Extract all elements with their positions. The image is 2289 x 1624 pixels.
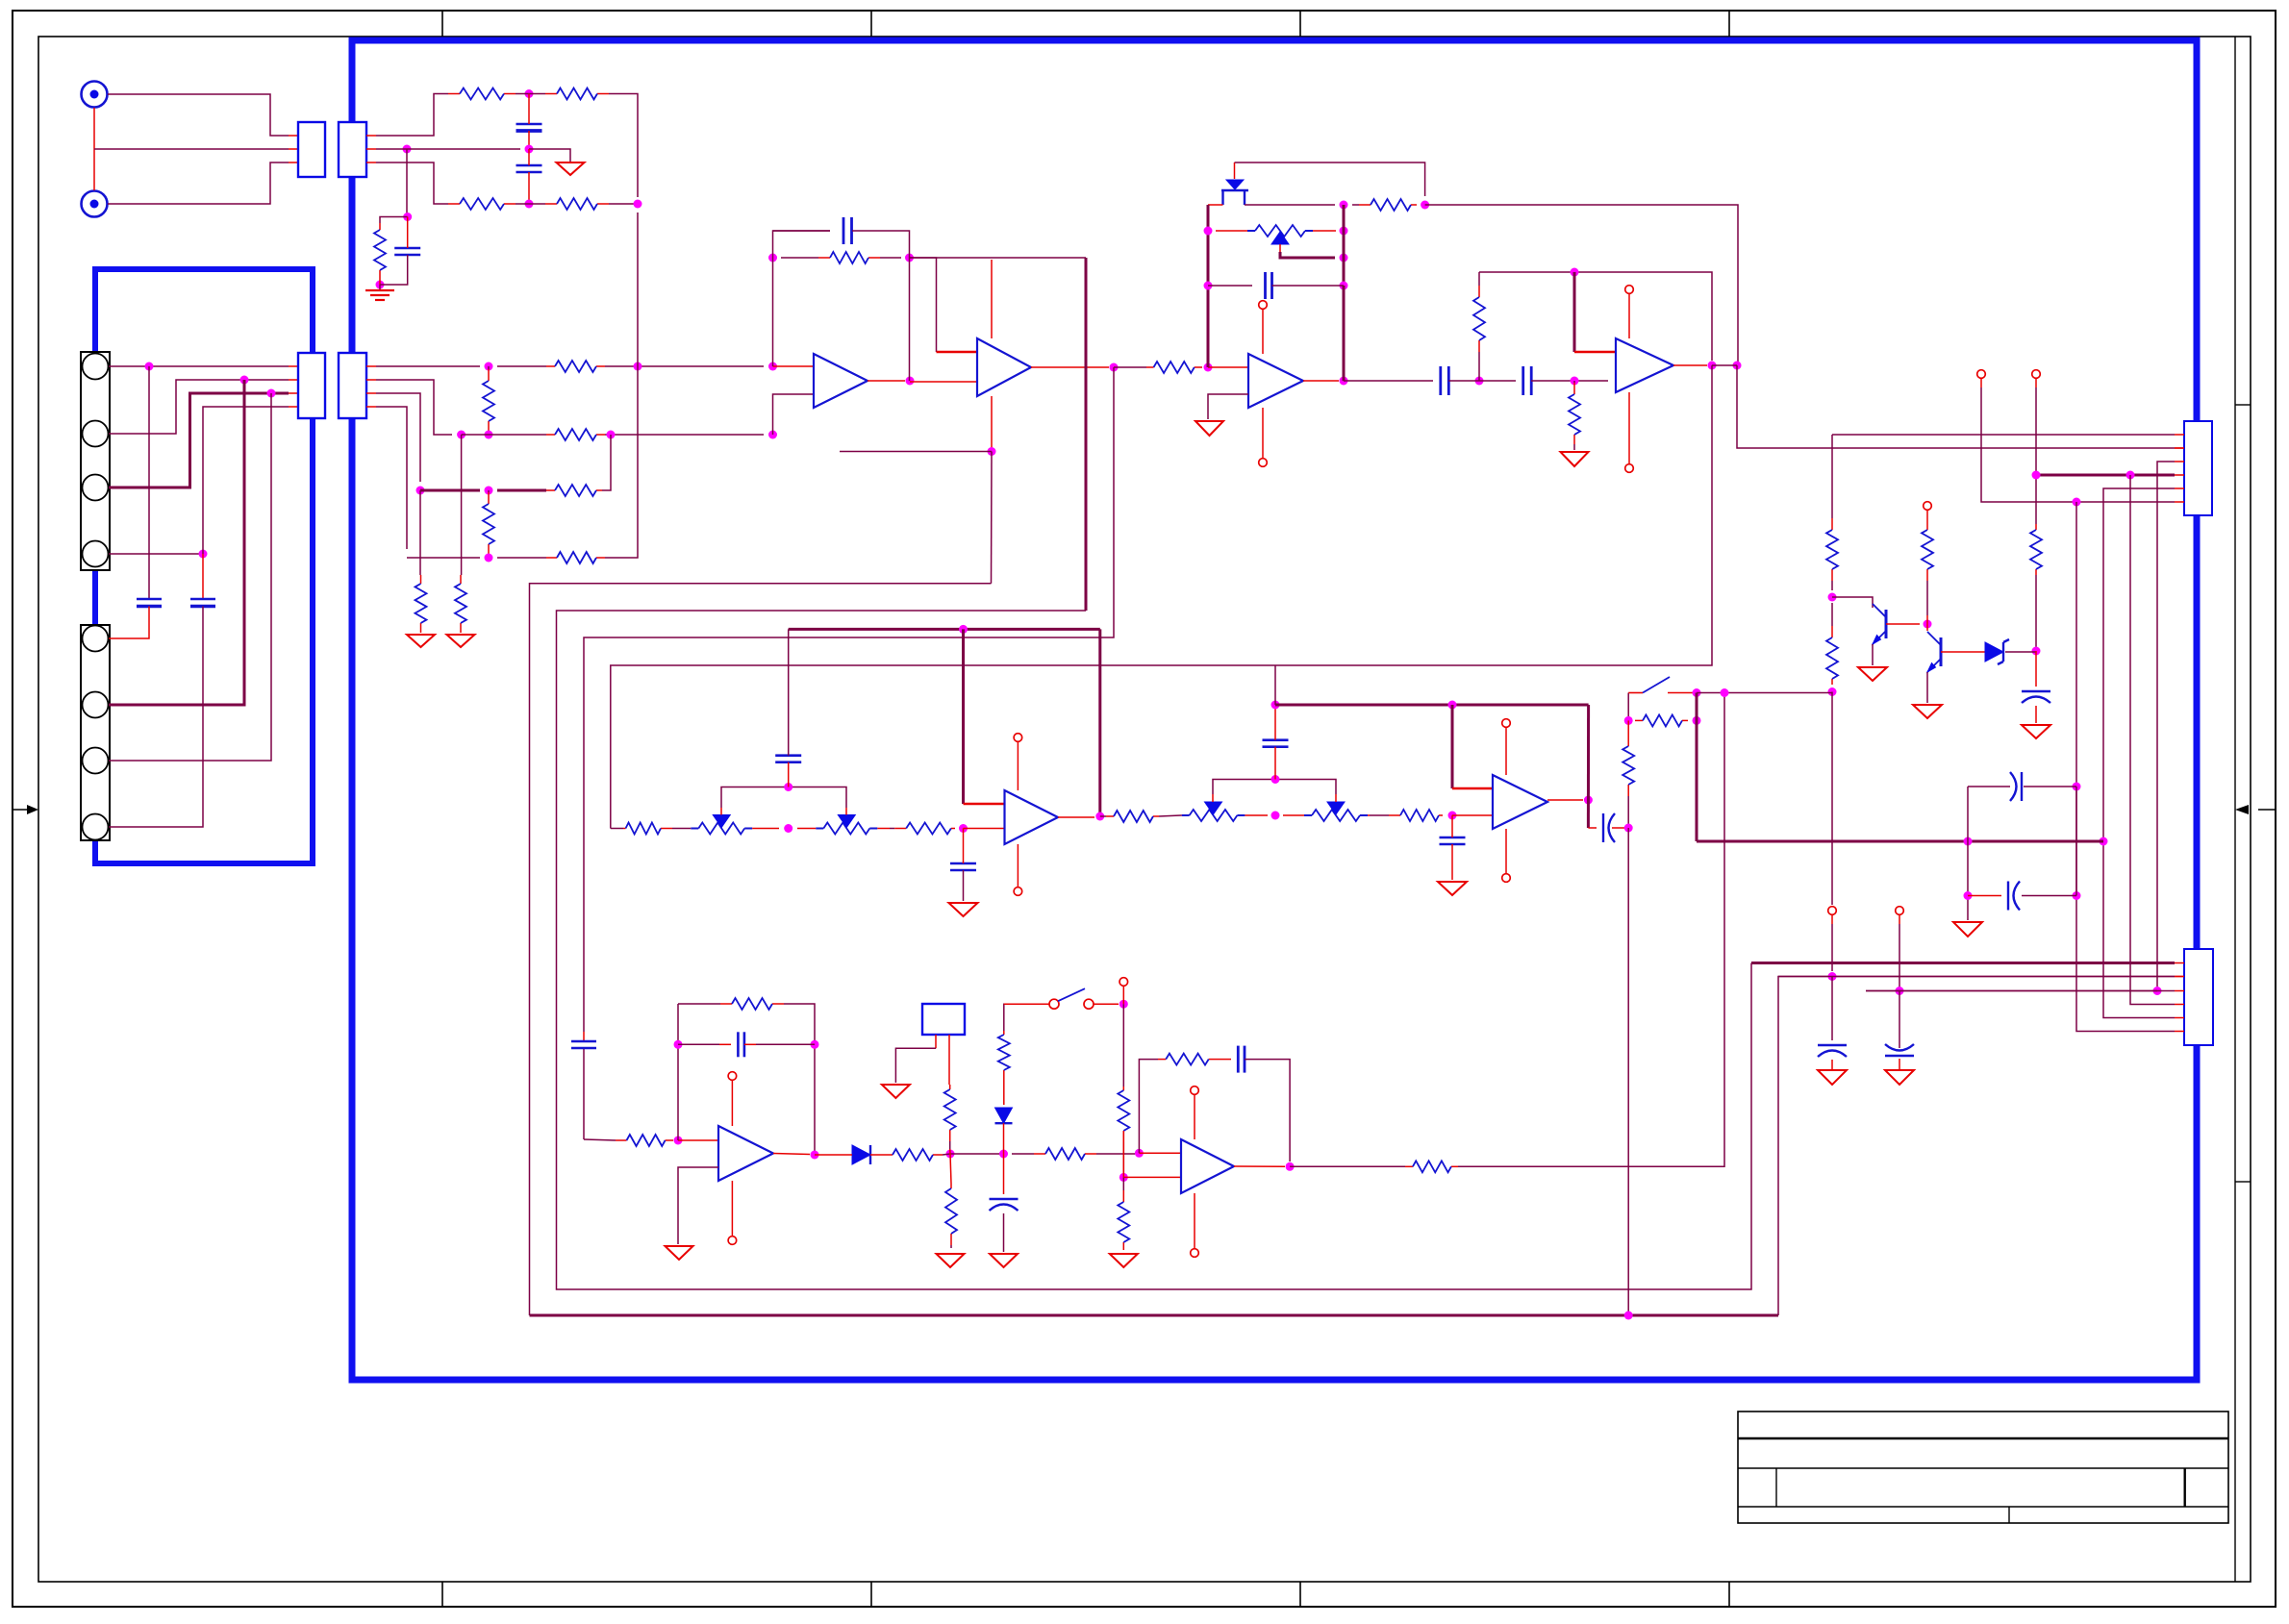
wire cap1086 a2 (719, 1043, 731, 1045)
title block vline 3 (2008, 1507, 2010, 1523)
capacitor C7 (1266, 272, 1272, 299)
junction n17 (803.5,452) (768, 431, 777, 439)
junction n8 (254,395) (240, 376, 249, 385)
connector J3 circle 7 (83, 748, 109, 774)
wire D4 to n72 (1003, 1123, 1005, 1154)
wire n72 down (1003, 1154, 1005, 1194)
wire fb right (808, 1004, 815, 1155)
connector J3 circle 1 (83, 354, 109, 380)
capacitor C4 (137, 599, 162, 607)
wire V1 down (1981, 387, 1982, 502)
wire n62 down (1451, 815, 1453, 837)
wire P2 pin2 row (376, 148, 520, 150)
title block vline 1 (1775, 1468, 1777, 1507)
junction n45 (2004,649) (1924, 620, 1932, 629)
pin circle U6 V+ (728, 1072, 737, 1081)
wire U6 plus (678, 1167, 718, 1244)
wire n48 down (1627, 720, 1629, 740)
ground G7 (1913, 705, 1942, 718)
junction n12 (663,381) (634, 362, 642, 371)
wire C5 down to pin8 (109, 607, 203, 828)
wire Q2 emitter down (1926, 672, 1928, 703)
wire row733 (1275, 704, 1589, 707)
resistor R35 (998, 1031, 1010, 1076)
resistor R2 (542, 88, 613, 100)
trimmer RP3 wiper (789, 787, 846, 815)
junction n24 (1256,382) (1204, 363, 1213, 372)
pin stub P4 pin1 (366, 365, 376, 367)
resistor R34 (945, 1184, 957, 1248)
wire U7 V+ (1194, 1095, 1195, 1139)
capacitor C8 (1441, 366, 1449, 395)
wire C15 down (788, 762, 790, 787)
border tick bottom 1 (441, 1582, 443, 1607)
connector J3 circle 2 (83, 421, 109, 447)
wire R21 to n45 (1926, 615, 1928, 624)
wire n71-n72 (950, 1153, 1004, 1155)
pin stub J5 pin3 (2175, 990, 2184, 992)
wire row1368 riser (1778, 977, 2175, 1316)
wire x1693 down (1627, 828, 1629, 1315)
wire row1368 thick (530, 1314, 1779, 1317)
junction n34 (1637,396) (1571, 377, 1579, 386)
capacitor C3 (394, 248, 420, 255)
wire U5a V+ (1017, 742, 1019, 790)
wire R31 to n71 (943, 1154, 950, 1155)
junction n54 (819.7,861.5) (784, 824, 792, 833)
relay K1 box (922, 1004, 965, 1035)
junction n14 (479.6,452) (457, 431, 465, 439)
wire n52-row (1866, 990, 1899, 992)
wire V1 stub (1980, 378, 1982, 387)
wire cap row861 a (1588, 827, 1597, 829)
junction n15 (508,452) (485, 431, 493, 439)
pin circle U5b V- (1502, 874, 1511, 883)
ground G2 (407, 635, 435, 647)
connector J3 circle 3 (83, 475, 109, 501)
wire row452 c (605, 434, 764, 436)
diode D3 (852, 1145, 870, 1164)
pin stub P1 pin2 (289, 148, 298, 150)
capacitor C19 (1440, 837, 1466, 844)
resistor R37 (1118, 1177, 1129, 1250)
wire x1397 seg a (1343, 205, 1346, 286)
wire V4 stub (1831, 914, 1833, 924)
pin circle U6 V- (728, 1237, 737, 1245)
junction n67 (705,1186) (674, 1137, 683, 1145)
pin circle U7 V- (1191, 1249, 1199, 1258)
junction n52 (1975,1030.5) (1896, 987, 1904, 995)
wire row213 a (1208, 204, 1223, 206)
wire row452 b (462, 434, 546, 436)
pin circle U3 V- (1259, 459, 1268, 467)
wire J3 pin6 jog (109, 380, 244, 705)
wire U5b out (1547, 799, 1583, 801)
wire row580 (407, 557, 480, 559)
ground G1 (557, 162, 585, 175)
wire U4 plus red (1574, 351, 1616, 354)
junction n28 (1397,240) (1340, 227, 1348, 236)
junction n1 top (525, 89, 534, 98)
wire row381 b (497, 365, 546, 367)
wire P2 pin3 jog (376, 162, 448, 204)
ground G15 (882, 1085, 910, 1098)
capacitor C1 (0, 0, 1, 1)
wire row635 net (557, 611, 1752, 1289)
resistor R24 (1622, 740, 1634, 828)
trimmer RP3 (797, 815, 890, 835)
title block hline 3 (1738, 1506, 2228, 1508)
wire pin6 row (1982, 501, 2175, 503)
junction n42 (2117,494) (2032, 471, 2041, 480)
wire cap1086 a (678, 1043, 719, 1045)
connector J3 circle 8 (83, 814, 109, 840)
wire J3 pin4 jog (109, 553, 203, 555)
wire row580 c (605, 212, 638, 558)
junction n65 (1651.4,832) (1584, 796, 1593, 805)
junction n73 (1184.4,1199.3) (1135, 1149, 1144, 1158)
pin stub P3 pin2 (289, 379, 298, 381)
junction n72 (1043.5,1200) (999, 1150, 1008, 1159)
wire n7 down to C4 (148, 366, 150, 599)
capacitor C15 (775, 756, 801, 762)
junction n18 (437,510) (416, 487, 425, 495)
ground G4 (1195, 421, 1223, 436)
junction n36 (1780,380) (1708, 362, 1717, 370)
junction n77 (1793,720.5) (1721, 688, 1729, 697)
wire V4 down (1831, 924, 1833, 971)
junction n47 (1764,720.5) (1693, 688, 1701, 697)
wire U5a minus red (964, 803, 1005, 806)
junction n4 (663,212) (634, 200, 642, 209)
capacitor C1 plates (516, 124, 542, 131)
junction n64 (1510,733) (1448, 701, 1457, 710)
wire K1 left pin (935, 1035, 937, 1048)
title block frame (1738, 1412, 2228, 1523)
resistor R22 (1826, 603, 1838, 685)
pin circle net V2 (2032, 370, 2041, 379)
ground G6 (1858, 667, 1887, 681)
capacitor C21 (738, 1032, 744, 1057)
junction n62 (1510,848) (1448, 812, 1457, 820)
sheet symbol input (small blue rect) (95, 269, 313, 863)
wire R9 to n16 (602, 435, 611, 490)
junction n74 (1168.3,1044.2) (1119, 1000, 1128, 1009)
wire n1 to C1 (528, 94, 530, 125)
resistor R38 (1158, 1054, 1217, 1065)
resistor R11 (546, 552, 605, 563)
capacitor C6 (843, 217, 852, 244)
wire row452 jog (376, 380, 452, 435)
wire n23 net to row606 (991, 452, 994, 584)
capacitor C12 (polarized) (1885, 1044, 1914, 1056)
op-amp U7 (1181, 1139, 1234, 1193)
resistor R31 (885, 1149, 943, 1161)
capacitor C17 (1263, 740, 1289, 747)
junction n30 (1256,297) (1204, 282, 1213, 290)
wire C17 down (1274, 747, 1276, 780)
wire SW2 right (1094, 1003, 1119, 1005)
resistor R9 (546, 485, 602, 496)
resistor R17 (1473, 272, 1485, 381)
connector P1 (left plug) (298, 122, 325, 177)
wire C10 down (2035, 706, 2037, 723)
junction n31 (1397,297) (1340, 282, 1348, 290)
resistor R14 (781, 252, 901, 263)
wire c9 right (1531, 380, 1608, 382)
wire n10 up to pin4 (203, 407, 289, 554)
junction n21 (946,396) (906, 377, 915, 386)
pin circle U4 V+ (1625, 286, 1634, 294)
wire cap1086 b2 (756, 1043, 815, 1045)
junction n25 (1397,213) (1340, 201, 1348, 210)
junction n55 (819.7,818.5) (784, 783, 792, 791)
junction n10 (211,576) (199, 550, 208, 559)
resistor R6 (546, 361, 605, 372)
resistor R28 (1370, 810, 1443, 821)
wire n75 to U7 plus (1123, 1176, 1181, 1178)
op-amp U5a (1005, 790, 1059, 844)
pin circle U4 V- (1625, 464, 1634, 473)
capacitor C13 (polarized) (2010, 772, 2022, 801)
wire U2 Vplus (991, 260, 993, 338)
pin stub P4 pin2 (366, 379, 376, 381)
wire n2b right (529, 149, 570, 162)
resistor R5 (374, 223, 386, 279)
wire n73 up (1139, 1060, 1158, 1154)
pin stub J4 pin6b (2175, 501, 2184, 503)
wire n1 stub (516, 93, 542, 95)
wire row931 b (2022, 895, 2076, 897)
wire n6 to earth (379, 285, 381, 289)
resistor R8 (546, 429, 605, 440)
wire P2 pin1 up (376, 94, 448, 137)
junction n53 (2046,931.5) (1964, 891, 1973, 900)
wire R18 gnd (1573, 444, 1575, 450)
wire c8-c9 (1448, 380, 1516, 382)
wire R36 to n75 (1122, 1131, 1124, 1177)
wire U3 V- down (1262, 408, 1264, 458)
pin circle V3 (1924, 502, 1932, 511)
pin stub P1 pin1 (289, 135, 298, 137)
wire U5a V- (1017, 844, 1019, 887)
connector P4 (right socket lower) (339, 353, 366, 418)
wire A up (773, 231, 831, 258)
capacitor C11 (polarized) (1818, 1045, 1847, 1057)
junction n20 (508,580) (485, 554, 493, 562)
resistor R39 (1405, 1161, 1458, 1172)
wire n44 to Q1 (1832, 597, 1873, 608)
junction n51 (1905,1015.5) (1828, 972, 1837, 981)
resistor R15 (1146, 362, 1202, 373)
connector J3 strip upper (81, 352, 110, 570)
wire row452 to J4 (1832, 434, 2175, 436)
capacitor C18 (polarized) (1603, 813, 1615, 842)
capacitor C22 (polarized) (990, 1199, 1019, 1211)
wire row654 (789, 628, 1100, 631)
resistor R18 (1569, 381, 1580, 444)
wire fb1044 left (678, 1003, 687, 1005)
pin stub J4 pin1b (2175, 434, 2184, 436)
wire U2 minus red (937, 351, 978, 354)
wire row931 a (1968, 895, 2001, 897)
earth ground E1 (365, 290, 394, 300)
junction n11 (508,381) (485, 362, 493, 371)
resistor R12 (415, 575, 427, 633)
connector J4 (right top) (2184, 421, 2212, 515)
wire n18 down (419, 490, 421, 575)
pin stub J4 pin5b (2175, 487, 2184, 489)
capacitor C16 (950, 863, 976, 870)
pin circle U5a V+ (1014, 734, 1022, 742)
wire n36 down row692 (611, 365, 1712, 829)
junction nB (945.5,268) (905, 254, 914, 262)
wire V3 down (1926, 510, 1928, 524)
pin circle U3 V+ (1259, 301, 1268, 310)
wire U4 V+ (1628, 294, 1630, 338)
wire R2 to x663 (613, 94, 638, 198)
ground G13 (1438, 882, 1467, 895)
wire U6 out (773, 1154, 810, 1155)
wire J3 pin7 jog (109, 393, 271, 761)
resistor R20 (1826, 435, 1838, 590)
ground G16 (937, 1254, 965, 1267)
wire C3 to n6 (380, 255, 408, 285)
op-amp U4 (1616, 338, 1673, 392)
border tick top 2 (870, 11, 872, 37)
junction n36b (1806,380) (1733, 362, 1742, 370)
wire row381 a (376, 365, 480, 367)
border tick right (2235, 805, 2276, 814)
capacitor C23 (1238, 1046, 1245, 1073)
wire C22 down (1003, 1213, 1005, 1252)
resistor R36 (1118, 1087, 1129, 1177)
RCA jack J2 pin (90, 200, 99, 209)
junction n39 (2187,875) (2100, 837, 2108, 846)
junction n69 (847,1086.3) (811, 1040, 819, 1049)
wire U5a out (1058, 816, 1094, 818)
border tick bottom 4 (1728, 1582, 1730, 1607)
wire U2 out (1031, 366, 1109, 368)
wire U6 V+ (731, 1081, 733, 1126)
wire B right to U2 (910, 258, 937, 352)
wire n63 up (1274, 665, 1276, 705)
wire n51 down (1831, 977, 1833, 1041)
pin stub P4 pin4 (366, 406, 376, 408)
junction n59 (1143.8,849) (1095, 812, 1104, 821)
RCA jack J1 pin (90, 90, 99, 99)
wire out row a (1290, 1165, 1405, 1167)
junction n33 (1538,396) (1475, 377, 1484, 386)
wire R33 to n71 (949, 1149, 951, 1154)
wire rail607 to R29 (584, 1139, 616, 1140)
junction n19 (508,510) (485, 487, 493, 495)
wire C15 up (788, 629, 790, 755)
pin stub P1 pin3 (289, 162, 298, 163)
wire J5 pin1 row thick (1751, 962, 2175, 964)
resistor R1 (448, 88, 516, 100)
wire n14 down (461, 435, 463, 575)
pin stub P3 pin1 (289, 365, 298, 367)
wire pin4 thick (2036, 474, 2175, 477)
pin circle U5a V- (1014, 887, 1022, 896)
ground G11 (1953, 922, 1982, 937)
revision column line (2234, 37, 2236, 1582)
wire U7 V- (1194, 1193, 1195, 1248)
wire V6 stub (1122, 986, 1124, 1004)
trimmer RP4 wiper (1213, 780, 1275, 803)
pin stub P3 pin3 (289, 392, 298, 394)
ground G10 (1885, 1070, 1914, 1085)
op-amp U3 (1248, 354, 1303, 408)
transistor Q1 (1873, 604, 1886, 644)
wire U3 V+ up (1262, 310, 1264, 354)
border tick bottom 3 (1299, 1582, 1301, 1607)
wire rail607 cap lead a (583, 1032, 585, 1041)
resistor R3 (448, 198, 516, 210)
wire row469 left (840, 451, 992, 453)
wire row606 (530, 584, 992, 1315)
junction n46 (1905,719.5) (1828, 687, 1837, 696)
wire C17 up (1274, 705, 1276, 740)
resistor R21 (1922, 524, 1933, 615)
pin stub J4 pin4b (2175, 474, 2184, 476)
junction n35 (1637,283) (1571, 268, 1579, 277)
wire J2 to P1 pin3 (108, 162, 289, 204)
junction n41 (2159,931.5) (2073, 891, 2081, 900)
resistor R32 (1012, 1148, 1135, 1160)
wire n47 down (1696, 693, 1698, 842)
wire row692 to corner (1711, 664, 1713, 666)
junction n61 (1326,810.5) (1271, 775, 1280, 784)
wire n59 to R27 (1100, 815, 1106, 817)
wire n5 left (380, 217, 408, 224)
border tick top 4 (1728, 11, 1730, 37)
junction n9 (282,409) (267, 389, 276, 398)
wire R35 to D4 (1003, 1076, 1005, 1105)
wire x2046 vert (1967, 787, 1969, 920)
wire n73 to U7 minus (1139, 1152, 1181, 1154)
wire V5 down (1899, 924, 1900, 990)
wire U2 Vminus (991, 396, 993, 452)
pin stub J5 pin1 (2175, 962, 2184, 964)
wire D3 out (870, 1154, 885, 1156)
ground G9 (1818, 1070, 1847, 1085)
junction n37 (2243,1030.5) (2153, 987, 2162, 995)
wire n65 down (1587, 705, 1590, 828)
capacitor C5 (190, 599, 215, 607)
wire U5b V+ (1505, 728, 1507, 775)
resistor R19 (2030, 524, 2042, 575)
sheet symbol main (large blue rect) (352, 40, 2197, 1380)
wire n22 down to row663 (584, 367, 1114, 1032)
trimmer RP2 (691, 815, 779, 835)
wire C12 down (1899, 1059, 1900, 1069)
wire n47 to n46 row (1697, 692, 1832, 694)
wire n56 down (963, 829, 965, 864)
op-amp U6 (718, 1126, 773, 1181)
wire n57 down (962, 629, 965, 804)
junction n29 (1397,268) (1340, 254, 1348, 262)
wire row875 thick (1697, 840, 2103, 843)
wire C4 to pin5 (109, 607, 149, 639)
wire n67 to U6 minus (678, 1139, 718, 1141)
wire n43 down (2035, 651, 2037, 687)
junction n71 (988,1200) (946, 1150, 955, 1159)
junction n75 (1168.3,1224.4) (1119, 1173, 1128, 1182)
wire C16 down (963, 870, 965, 901)
resistor R33 (944, 1085, 956, 1149)
